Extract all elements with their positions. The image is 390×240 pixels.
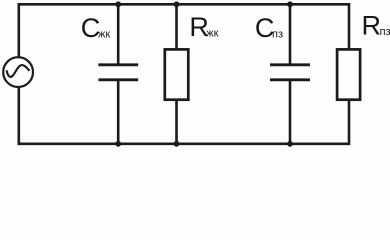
capacitor Cжк top plate — [98, 63, 138, 66]
AC source sine wave — [7, 65, 30, 77]
junction dot top Cжк — [115, 1, 121, 7]
wire resistor Rжк top stub — [175, 3, 178, 50]
junction dot bottom Rжк — [174, 141, 180, 147]
AC source G1 circle — [3, 57, 33, 87]
capacitor Cпз bottom plate — [270, 78, 310, 81]
wire right lower (from Rпз) — [348, 100, 351, 146]
wire bottom rail — [19, 143, 349, 146]
resistor Rжк body — [165, 49, 189, 99]
wire cap Cжк top stub — [117, 3, 120, 64]
junction dot top Cпз — [287, 1, 293, 7]
svg-text:жк: жк — [206, 28, 218, 40]
junction dot top Rжк — [174, 1, 180, 7]
resistor Rпз body — [337, 49, 360, 99]
wire left upper — [17, 3, 20, 57]
wire cap Cпз top stub — [289, 3, 292, 64]
svg-text:пз: пз — [380, 26, 390, 38]
capacitor Cжк bottom plate — [98, 78, 138, 81]
svg-text:пз: пз — [272, 29, 283, 41]
junction dot bottom Cпз — [287, 141, 293, 147]
wire cap Cпз bottom stub — [289, 81, 292, 145]
wire resistor Rжк bottom stub — [175, 100, 178, 146]
junction dot bottom Cжк — [115, 141, 121, 147]
wire top rail — [19, 3, 349, 6]
wire right upper (to Rпз) — [348, 3, 351, 50]
svg-text:жк: жк — [98, 29, 110, 41]
wire cap Cжк bottom stub — [117, 81, 120, 145]
svg-text:R: R — [362, 10, 382, 40]
wire left lower — [17, 87, 20, 145]
capacitor Cпз top plate — [270, 63, 310, 66]
